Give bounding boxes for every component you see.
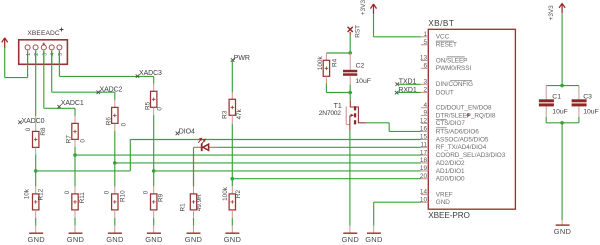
- pin R11 bottom: [74, 210, 76, 218]
- svg-text:GND: GND: [365, 235, 383, 244]
- connector origin cross: [42, 43, 45, 46]
- svg-text:DTR/SLEEP_RQ/DI8: DTR/SLEEP_RQ/DI8: [436, 112, 496, 119]
- svg-text:100k: 100k: [317, 56, 324, 71]
- pin R2 bottom: [231, 210, 233, 218]
- svg-text:R10: R10: [119, 190, 126, 202]
- pin C2 top: [349, 53, 351, 70]
- resistor R1: [180, 194, 204, 212]
- wire TXD1 to IC pin 3: [397, 83, 421, 85]
- wire R2 to ground: [231, 218, 233, 226]
- capacitor C2: [343, 62, 371, 85]
- pin R12 bottom: [35, 210, 37, 218]
- pin C1 bottom: [545, 106, 547, 117]
- svg-text:AD0/DIO0: AD0/DIO0: [436, 176, 465, 183]
- junction node AD0 net: [231, 177, 235, 181]
- svg-text:GND: GND: [27, 235, 45, 244]
- pin R5 bottom: [153, 107, 155, 115]
- svg-text:R3: R3: [222, 110, 229, 119]
- svg-text:3: 3: [42, 53, 48, 56]
- wire +3V3 to connector pin 1: [5, 47, 28, 78]
- wire node to R9: [153, 171, 155, 187]
- svg-text:+3V3: +3V3: [360, 0, 367, 15]
- svg-text:AD2/DIO2: AD2/DIO2: [436, 160, 465, 167]
- connector pin 2: [33, 45, 40, 56]
- ground: [342, 233, 360, 244]
- svg-text:VCC: VCC: [436, 34, 450, 41]
- svg-text:1: 1: [26, 53, 32, 56]
- resistor R7: [65, 123, 86, 143]
- pin R10 top: [114, 186, 116, 194]
- svg-text:XBEEADC: XBEEADC: [27, 30, 59, 37]
- pin R11 top: [74, 186, 76, 194]
- pin ground R11: [74, 226, 76, 233]
- svg-text:10uF: 10uF: [355, 78, 371, 85]
- svg-text:GND: GND: [436, 199, 450, 206]
- resistor R5: [144, 91, 163, 110]
- svg-text:R8: R8: [40, 127, 47, 136]
- ic pin 9 DTR/SLEEP_RQ/DI8: [421, 110, 496, 120]
- +3V3 supply arrow left: [2, 38, 8, 48]
- ic pin 13 ON/SLEEP: [420, 55, 467, 65]
- svg-text:XB/BT: XB/BT: [428, 18, 454, 28]
- +3V3 supply arrow right: [548, 3, 565, 20]
- wire node to R11: [74, 155, 76, 186]
- ic pin 20 AD0/DIO0: [420, 173, 465, 183]
- svg-text:R12: R12: [38, 188, 45, 200]
- pin ground R10: [114, 226, 116, 233]
- wire R4 branch bottom: [326, 83, 350, 92]
- svg-text:CTS/DIO7: CTS/DIO7: [436, 120, 466, 127]
- wire AD3 row to IC pin 17: [75, 154, 421, 156]
- svg-text:R7: R7: [65, 135, 72, 144]
- svg-text:CD/DOUT_EN/DO8: CD/DOUT_EN/DO8: [436, 105, 492, 112]
- wire node to R10: [114, 163, 116, 187]
- wire AD1 row to IC pin 19: [154, 170, 421, 172]
- resistor R6: [105, 107, 127, 126]
- pin C3 bottom: [578, 106, 580, 117]
- connector pin 5: [57, 45, 64, 56]
- svg-text:VREF: VREF: [436, 191, 453, 198]
- svg-text:+3V3: +3V3: [548, 5, 555, 21]
- pin R3 top: [231, 92, 233, 99]
- wire R12 to ground: [35, 218, 37, 226]
- capacitor C3: [572, 93, 599, 115]
- net label XADC2: [97, 86, 123, 94]
- svg-text:0: 0: [80, 139, 87, 143]
- svg-text:RESET: RESET: [436, 42, 457, 49]
- ground: [106, 233, 124, 244]
- net label TXD1: [395, 78, 416, 86]
- wire AD5 net jog to IC pin 15: [36, 140, 421, 171]
- ic pin 18 AD2/DIO2: [420, 157, 465, 167]
- svg-text:AD1/DIO1: AD1/DIO1: [436, 168, 465, 175]
- wire R1 to ground: [193, 218, 195, 226]
- ic pin 14 VREF: [420, 189, 453, 199]
- pin ground T1: [349, 226, 351, 233]
- pin ground R1: [193, 226, 195, 233]
- svg-text:100k: 100k: [222, 186, 229, 201]
- svg-text:15: 15: [420, 134, 428, 141]
- wire node to T1 drain: [349, 93, 351, 101]
- net label RXD1: [395, 87, 417, 95]
- svg-text:XADC2: XADC2: [100, 86, 123, 93]
- svg-text:R4: R4: [331, 58, 338, 67]
- wire node to R12: [35, 171, 37, 187]
- pin R3 bottom: [231, 115, 233, 124]
- connector XBEEADC body: [19, 40, 68, 65]
- svg-text:16: 16: [420, 126, 428, 133]
- ic pin 10 GND: [420, 196, 450, 206]
- pin R6 top: [114, 100, 116, 108]
- net label XADC3: [136, 70, 162, 78]
- svg-text:12: 12: [420, 118, 428, 125]
- svg-text:49.9R: 49.9R: [196, 194, 203, 211]
- svg-text:PWR: PWR: [234, 55, 250, 62]
- wire connector pin stubs: [28, 51, 60, 65]
- svg-text:COORD_SEL/AD3/DIO3: COORD_SEL/AD3/DIO3: [436, 152, 506, 159]
- wire T1 body to ground: [349, 130, 351, 225]
- ground: [67, 233, 85, 244]
- wire +3V3 to IC pin 1: [374, 15, 421, 37]
- wire IC pin 10 to ground: [374, 202, 421, 225]
- wire C2 to T1: [349, 85, 351, 93]
- pin R8 top: [35, 116, 37, 131]
- wire cap bottom bus: [546, 122, 579, 124]
- ic pin 16 RTS/AD6/DIO6: [420, 126, 479, 136]
- junction node AD2 net at R6: [113, 161, 117, 165]
- svg-text:C2: C2: [356, 62, 365, 69]
- ic U1 origin cross: [466, 113, 470, 117]
- pin ground rail: [561, 220, 563, 225]
- ground: [27, 233, 45, 244]
- svg-text:3: 3: [423, 79, 427, 86]
- svg-text:RF_TX/AD4/DIO4: RF_TX/AD4/DIO4: [436, 144, 487, 151]
- wire rail to ground: [561, 123, 563, 221]
- svg-text:0: 0: [104, 190, 111, 194]
- svg-text:R9: R9: [158, 193, 165, 202]
- wire XADC1 from connector pin 3: [44, 51, 75, 116]
- wire R10 to ground: [114, 218, 116, 226]
- svg-text:XADC1: XADC1: [61, 100, 84, 107]
- svg-text:6: 6: [423, 63, 427, 70]
- pin R7 top: [74, 116, 76, 124]
- ic pin 15 ASSOC/AD5/DIO5: [420, 134, 489, 144]
- svg-text:XADC3: XADC3: [139, 70, 162, 77]
- pin ground R9: [153, 226, 155, 233]
- wire C1 bottom: [545, 117, 547, 123]
- pin R1 top: [193, 186, 195, 194]
- svg-text:14: 14: [420, 189, 428, 196]
- svg-text:GND: GND: [185, 235, 203, 244]
- junction RST R4 branch: [348, 51, 352, 55]
- svg-text:XBEE-PRO: XBEE-PRO: [428, 211, 470, 220]
- ic pin 1 VCC: [421, 31, 450, 41]
- svg-text:R1: R1: [180, 203, 187, 212]
- svg-text:19: 19: [420, 165, 428, 172]
- svg-text:1: 1: [423, 31, 427, 38]
- svg-text:47k: 47k: [236, 108, 243, 119]
- pin ground IC: [373, 226, 375, 233]
- svg-text:XADC0: XADC0: [22, 118, 45, 125]
- ic pin 12 CTS/DIO7: [420, 118, 465, 128]
- resistor R8: [25, 127, 47, 147]
- connector XBEEADC label: [27, 28, 63, 38]
- svg-text:2: 2: [34, 53, 40, 56]
- svg-text:0: 0: [156, 107, 163, 111]
- svg-text:0: 0: [120, 122, 127, 126]
- wire T1 source to IC pin 16: [366, 123, 421, 132]
- wire PWR to R3: [231, 61, 233, 93]
- junction rail bottom: [560, 121, 564, 125]
- svg-text:18: 18: [420, 157, 428, 164]
- junction node AD1 net at R5: [152, 169, 156, 173]
- pin R5 top: [153, 84, 155, 92]
- wire R4 branch top: [326, 52, 350, 54]
- resistor R12: [23, 188, 44, 210]
- unconnected marker RST: [348, 27, 353, 35]
- svg-text:GND: GND: [145, 235, 163, 244]
- resistor R2: [222, 186, 242, 210]
- svg-text:GND: GND: [67, 235, 85, 244]
- pin C3 top: [578, 86, 580, 100]
- pin R2 top: [231, 186, 233, 194]
- led DIO4: [194, 138, 217, 152]
- svg-text:DOUT: DOUT: [436, 89, 454, 96]
- net label PWR: [231, 55, 250, 62]
- ground: [224, 233, 242, 244]
- pin ground R12: [35, 226, 37, 233]
- svg-text:DIO4: DIO4: [179, 129, 195, 136]
- wire R8 to node: [35, 154, 37, 171]
- junction rail top: [560, 84, 564, 88]
- svg-text:0: 0: [25, 127, 32, 131]
- wire RST node: [349, 35, 351, 53]
- ic pin 17 COORD_SEL/AD3/DIO3: [420, 149, 506, 159]
- resistor R10: [104, 190, 127, 210]
- svg-text:GND: GND: [106, 235, 124, 244]
- resistor R4: [317, 56, 338, 77]
- svg-text:ON/SLEEP: ON/SLEEP: [436, 57, 468, 64]
- transistor T1 2N7002: [319, 101, 367, 131]
- pin R6 bottom: [114, 123, 116, 131]
- wire AD0 row to IC pin 20: [232, 178, 421, 180]
- ic pin 11 RF_TX/AD4/DIO4: [420, 142, 486, 152]
- wire R5 to node: [153, 115, 155, 171]
- svg-text:2N7002: 2N7002: [319, 110, 341, 117]
- resistor R9: [143, 190, 165, 210]
- svg-text:GND: GND: [224, 235, 242, 244]
- wire R3 to node: [231, 124, 233, 179]
- resistor R11: [64, 190, 86, 210]
- net label DIO4: [176, 129, 195, 136]
- wire XADC0 from connector pin 2: [35, 51, 37, 116]
- connector pin 3: [41, 45, 48, 56]
- ground: [365, 233, 383, 244]
- wire cap top bus: [546, 85, 579, 87]
- svg-text:0: 0: [143, 190, 150, 194]
- pin R9 top: [153, 186, 155, 194]
- wire R6 to node: [114, 131, 116, 163]
- +3V3 supply arrow at IC: [360, 0, 377, 15]
- net label XADC1: [57, 100, 83, 109]
- pin R4 bottom: [325, 76, 327, 83]
- wire +3V3 rail down: [561, 14, 563, 86]
- svg-text:10uF: 10uF: [583, 109, 599, 116]
- ic pin 4 CD/DOUT_EN/DO8: [421, 102, 492, 112]
- svg-text:5: 5: [58, 53, 64, 56]
- pin R9 bottom: [153, 210, 155, 218]
- svg-text:2: 2: [423, 87, 427, 94]
- wire R11 to ground: [74, 218, 76, 226]
- svg-text:R5: R5: [144, 101, 151, 110]
- svg-text:17: 17: [420, 149, 428, 156]
- pin R4 top: [325, 53, 327, 60]
- svg-text:4: 4: [50, 53, 56, 56]
- svg-text:10: 10: [420, 196, 428, 203]
- svg-text:R2: R2: [235, 189, 242, 198]
- svg-text:10uF: 10uF: [552, 109, 568, 116]
- ic pin 2 DOUT: [421, 87, 454, 97]
- svg-text:RTS/AD6/DIO6: RTS/AD6/DIO6: [436, 128, 479, 135]
- pin ground R2: [231, 226, 233, 233]
- svg-text:C3: C3: [583, 93, 592, 100]
- junction node AD5 net at R8: [34, 169, 38, 173]
- wire node to R2: [231, 179, 233, 187]
- wire C3 bottom: [578, 117, 580, 123]
- svg-text:13: 13: [420, 55, 428, 62]
- svg-text:DIN/CONFIG: DIN/CONFIG: [436, 81, 473, 88]
- svg-text:10k: 10k: [23, 188, 30, 199]
- ic pin 5 RESET: [421, 39, 457, 49]
- pin R12 top: [35, 186, 37, 194]
- wire XADC3 from connector pin 5: [59, 51, 153, 84]
- resistor R3: [222, 99, 243, 119]
- svg-text:4: 4: [423, 102, 427, 109]
- svg-text:ASSOC/AD5/DIO5: ASSOC/AD5/DIO5: [436, 136, 489, 143]
- ic pin 19 AD1/DIO1: [420, 165, 465, 175]
- pin R1 bottom: [193, 210, 195, 218]
- junction node AD3 net at R7: [73, 153, 77, 157]
- wire AD2 row to IC pin 18: [115, 162, 421, 164]
- connector pin 4: [49, 45, 56, 56]
- ground right rail: [554, 225, 572, 236]
- junction C2 R4 T1 node: [348, 91, 352, 95]
- wire R7 to node: [74, 147, 76, 155]
- svg-text:0: 0: [64, 190, 71, 194]
- connector pin 1: [25, 45, 32, 56]
- capacitor C1: [539, 93, 568, 115]
- svg-text:5: 5: [423, 39, 427, 46]
- pin C1 top: [545, 86, 547, 100]
- wire R9 to ground: [153, 218, 155, 226]
- ic pin 6 PWM0/RSSI: [421, 63, 472, 73]
- net label XADC0: [18, 118, 44, 125]
- svg-text:11: 11: [420, 142, 427, 149]
- ic pin 3 DIN/CONFIG: [421, 79, 473, 89]
- pin C2 bottom: [349, 76, 351, 85]
- pin R7 bottom: [74, 139, 76, 147]
- svg-text:R11: R11: [79, 192, 86, 204]
- ground: [185, 233, 203, 244]
- svg-text:GND: GND: [342, 235, 360, 244]
- wire RXD1 to IC pin 2: [397, 91, 421, 93]
- wire XADC2 from connector pin 4: [52, 51, 115, 100]
- svg-text:RST: RST: [355, 25, 362, 38]
- svg-text:GND: GND: [554, 227, 572, 236]
- svg-text:PWM0/RSSI: PWM0/RSSI: [436, 65, 472, 72]
- svg-text:R6: R6: [105, 117, 112, 126]
- pin R8 bottom: [35, 147, 37, 154]
- ic U1 XBEE-PRO body: [428, 29, 515, 209]
- pin R10 bottom: [114, 210, 116, 218]
- svg-text:C1: C1: [552, 93, 561, 100]
- wire IC pin 11 to LED: [217, 146, 421, 148]
- ground: [145, 233, 163, 244]
- wire LED to R1: [193, 147, 195, 186]
- svg-text:9: 9: [423, 110, 427, 117]
- svg-text:20: 20: [420, 173, 428, 180]
